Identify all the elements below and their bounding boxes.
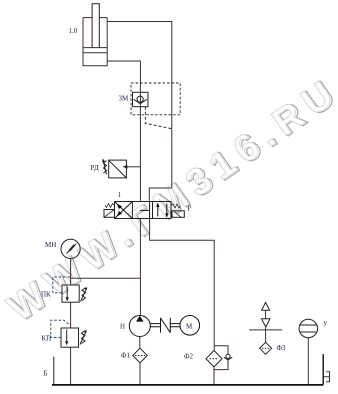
cylinder piston rod [92, 4, 99, 48]
coupling pump-motor [150, 318, 180, 333]
wire rod-side from cylinder top to B-line [107, 22, 172, 201]
svg-text:М: М [186, 322, 193, 330]
check valve of ZM: square [133, 92, 149, 106]
valve right spring [171, 204, 181, 208]
F2 bypass check valve [214, 346, 228, 370]
svg-text:ЗМ: ЗМ [119, 95, 130, 103]
svg-text:ПК: ПК [41, 291, 51, 299]
svg-text:Ф2: Ф2 [184, 353, 194, 361]
wire U to tank [307, 338, 309, 385]
svg-text:КП: КП [42, 335, 52, 343]
wire branch to gauge and relief [71, 277, 141, 279]
relief valve PK [62, 285, 79, 302]
svg-text:Ф1: Ф1 [121, 352, 131, 360]
valve right position arrows [156, 203, 168, 218]
valve KP [61, 328, 79, 347]
filter F1 [133, 348, 148, 363]
tank B [53, 357, 55, 385]
svg-text:МН: МН [45, 241, 56, 249]
RD diagonal [109, 160, 127, 178]
pump N [129, 316, 150, 337]
wire PK to KP [70, 302, 72, 328]
filter F2 [206, 351, 222, 367]
valve left solenoid tab [104, 210, 115, 218]
check valve ball [137, 96, 143, 102]
wire gauge to branch [70, 259, 72, 286]
valve right solenoid tab [172, 211, 184, 218]
cylinder 1.0 body [83, 18, 107, 66]
wire T-line from valve to filter F2 [150, 219, 215, 351]
svg-text:РД: РД [91, 164, 99, 172]
wire F2 to tank [213, 367, 215, 385]
pilot line dashed from ZM to B-line [145, 107, 171, 129]
valve left spring [105, 204, 115, 208]
breather with filter F3 [262, 302, 270, 310]
filter F3 diamond [260, 342, 272, 354]
RD spring marks [104, 161, 107, 174]
wire cap-side from cylinder to check valve and down to valve A port [107, 61, 140, 201]
wire P-line from valve down to pump [139, 219, 141, 316]
check valve seat [134, 99, 147, 103]
level gauge U [299, 319, 317, 337]
watermark WWW.GM316.RU [0, 69, 338, 332]
valve centre position symbol [140, 202, 150, 219]
svg-text:Ф3: Ф3 [277, 344, 287, 352]
motor M [180, 316, 200, 336]
wire F1 to tank [139, 363, 141, 385]
svg-text:1.0: 1.0 [69, 27, 78, 35]
wire KP to tank [70, 347, 72, 385]
tank drain symbol [323, 372, 329, 382]
hydraulic lock ZM dashed enclosure [131, 83, 180, 115]
svg-text:у: у [324, 319, 328, 327]
svg-text:Н: Н [120, 322, 125, 330]
RD sensing line with arrow [126, 166, 140, 168]
svg-text:Р: Р [187, 204, 191, 212]
valve left position crossed arrows [115, 202, 133, 219]
svg-text:Б: Б [44, 369, 48, 377]
wire pump to filter F1 [139, 337, 141, 349]
svg-text:WWW.ГМ316.RU: WWW.ГМ316.RU [0, 69, 338, 329]
pressure switch RD square [109, 160, 127, 178]
directional valve 1 body [115, 202, 172, 219]
svg-text:1: 1 [118, 191, 122, 199]
gauge MN [61, 239, 80, 258]
